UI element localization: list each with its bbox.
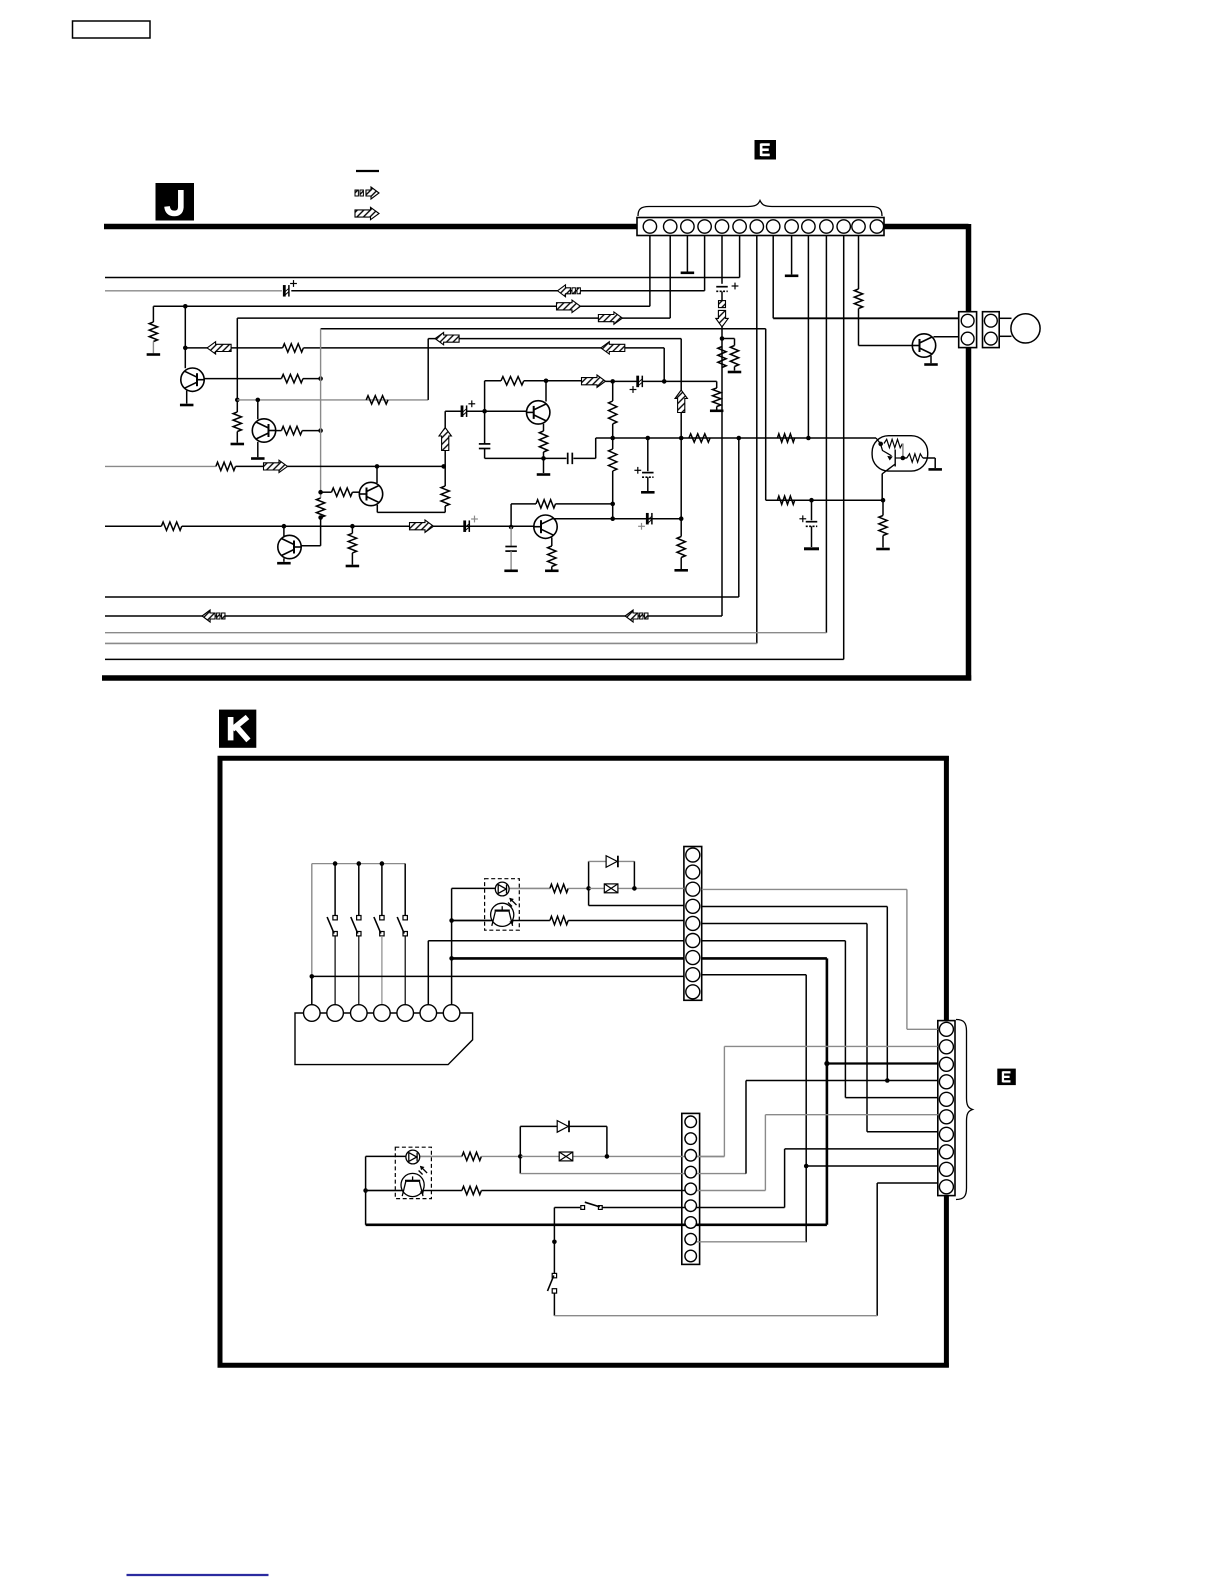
wire c1 pin4 chain h — [702, 906, 888, 908]
wire from CN-J pin7 long drop — [756, 236, 758, 644]
switch SW6 (horizontal) — [581, 1202, 602, 1209]
ground below R27 — [876, 548, 890, 551]
power transistor Q9 (oval package) — [872, 436, 928, 474]
terminator bar below R3 — [728, 371, 742, 374]
border: section K bottom — [218, 1363, 949, 1368]
wire x428 to c1 pin6 — [428, 940, 684, 942]
wire vert x877 — [876, 1183, 878, 1316]
resistor R18 on net H — [777, 434, 794, 442]
bar below C10 — [504, 569, 517, 572]
transistor Q4 — [359, 482, 382, 505]
ground below R15 — [710, 409, 724, 412]
junction net H / C7 chain — [646, 436, 651, 441]
signal arrow on net J2 — [582, 375, 606, 387]
resistor R22 on net y526 — [161, 522, 181, 530]
switch SW3 — [351, 916, 361, 936]
wire diode loop left vertical — [588, 861, 590, 905]
ground at Q1 emitter — [180, 404, 194, 407]
wire from CN-J pin9 stub — [791, 236, 793, 275]
ground below C11 — [804, 547, 819, 550]
wire net D corner drop — [236, 318, 238, 400]
resistor RK3 — [462, 1152, 482, 1160]
wire above R7 — [236, 400, 238, 412]
brace right of connector CN-K2 — [956, 1020, 973, 1200]
wire Q4 collector vertical — [376, 466, 378, 483]
wire net y458 — [485, 457, 567, 459]
wire diode loop right vertical — [633, 861, 635, 888]
capacitor C2 (pin5 chain) — [716, 287, 728, 292]
junction net J2 / Q6 collector — [544, 379, 549, 384]
wire gray net E3 (y400) — [237, 399, 428, 401]
legend: hatched arrow symbol — [355, 207, 379, 219]
capacitor C8 (series on y519) — [647, 513, 652, 525]
wire Q7 emitter upper — [551, 538, 553, 547]
connector CN3 (2 pin) body — [983, 312, 1000, 348]
diode D1 — [606, 856, 618, 868]
wire net B (y291) segment right — [291, 290, 704, 292]
ground at oval — [928, 468, 942, 471]
junction vert C / net y519 — [610, 516, 615, 521]
resistor R17 on net H — [689, 434, 710, 442]
ground below R16 — [537, 473, 551, 476]
connector CN-K2 (10 pin) body — [938, 1021, 955, 1196]
wire net y512 — [377, 511, 445, 513]
PCB pad circle 4 — [374, 1005, 391, 1022]
wire oval emitter drop lower — [881, 499, 884, 501]
suppressor XD2 (crossed box) — [559, 1152, 573, 1161]
junction oval emitter node — [901, 456, 906, 461]
wire bottom bus 1 (y597) — [105, 596, 739, 598]
wire net C corner drop — [152, 306, 154, 322]
wire c3 pin4 right (gray) — [691, 1173, 746, 1175]
signal tag arrow on bus2 right — [625, 610, 648, 622]
transistor Q5 — [278, 535, 301, 558]
wire column x451 upper — [451, 888, 453, 1004]
wire SW4 column upper — [381, 864, 383, 916]
junction x554 / c3 pin8 wire — [552, 1240, 557, 1245]
wire vert 511 upper — [510, 504, 512, 527]
junction net H / vert B — [679, 436, 684, 441]
wire Q2 emitter — [257, 442, 259, 457]
wire above R23 — [351, 526, 353, 533]
transistor Q6 — [527, 401, 550, 424]
wire vert C upper — [612, 381, 614, 401]
wire bottom bus 3 (y633) gray — [105, 632, 826, 634]
polarity + of C7 — [634, 467, 641, 474]
wire pin13 chain to Q8 base — [859, 345, 913, 347]
junction net C / Q1 base chain — [183, 304, 188, 309]
PCB pad circle 5 — [397, 1005, 414, 1022]
polarity + of C4 — [630, 386, 637, 393]
switch SW4 — [374, 916, 384, 936]
PCB outline polygon — [295, 1013, 473, 1065]
wire SW1 column lower — [311, 976, 313, 1004]
wire net y526 left — [105, 525, 161, 527]
junction gray bus / Q4 base wire — [318, 490, 323, 495]
junction x451 / motor wire — [449, 918, 454, 923]
wire net y458 right — [573, 457, 595, 459]
signal arrow on net D — [598, 312, 622, 324]
ground below R5 — [147, 353, 161, 356]
wire above R13 — [444, 466, 446, 486]
wire vert A x664 — [663, 348, 665, 382]
wire from CN-J pin12 long drop — [843, 236, 845, 660]
legend: tagged arrow symbol — [355, 187, 379, 199]
wire SW1 column upper (gray) — [311, 864, 313, 977]
resistor R13 — [441, 486, 449, 506]
polarity + of C9 — [471, 516, 478, 523]
wire Q5 collector up — [283, 526, 285, 536]
junction net y500 / C11 — [809, 498, 814, 503]
wire loop-bottom to c1 pin4 — [589, 905, 684, 907]
wire to c2 pin6 (gray) — [765, 1114, 937, 1116]
ground below R23 — [346, 565, 360, 568]
wire vert B lower — [680, 558, 682, 570]
wire corner y458 up to net H — [595, 438, 597, 458]
junction net y526 / R23 — [350, 524, 355, 529]
wire thick to c2 pin3 — [827, 1062, 938, 1064]
wire corner to C3 — [445, 410, 462, 412]
wire R6 to gray bus — [303, 378, 321, 380]
border: section J thick bottom line — [102, 675, 971, 681]
wire CN3 pin1 to plug — [999, 317, 1011, 319]
wire RK4 to c3 pin5 — [481, 1190, 690, 1192]
wire bottom gray — [554, 1315, 877, 1317]
wire diode loop top (gray) — [589, 860, 635, 862]
wire c1 pin5 chain to c2 pin7 — [867, 1131, 938, 1133]
wire net B (y291) segment left — [105, 290, 282, 292]
wire x445 above arrow — [444, 451, 446, 467]
wire column x428 upper — [427, 941, 429, 1005]
connector CN2 (2 pin) pins — [961, 314, 974, 345]
junction R9 / gray bus — [318, 428, 323, 433]
wire vert x765.7 — [765, 329, 767, 500]
wire oval ground stub — [934, 458, 936, 468]
junction diode loop left — [586, 886, 591, 891]
junction net I / Q4 collector — [375, 464, 380, 469]
junction gray net / vert 237 — [235, 398, 240, 403]
wire net C (y306) — [153, 305, 650, 307]
wire net H into oval — [876, 438, 881, 444]
resistor R16 at Q6 emitter — [539, 431, 547, 452]
wire RK3 to loop (gray) — [481, 1155, 520, 1157]
wire net y504 right — [556, 503, 613, 505]
border: section K right upper — [944, 756, 949, 1021]
wire motor2 right pre — [366, 1190, 462, 1192]
wire below R16 — [543, 452, 545, 473]
wire below R7 — [236, 432, 238, 443]
wire Q6 collector — [545, 381, 547, 402]
ground below R7 — [231, 443, 245, 446]
resistor R23 — [348, 533, 356, 553]
junction oval base — [878, 442, 883, 447]
wire net J2 mid2 — [606, 380, 638, 382]
wire net D (y318) — [237, 317, 670, 319]
wire C3 to Q6 base — [467, 410, 527, 412]
wire c1 pin4 chain v — [886, 907, 888, 1081]
wire below C10 — [510, 551, 512, 569]
wire from CN-J pin13 stub — [858, 236, 860, 290]
wire below R27 — [882, 536, 884, 548]
wire c1 pin3 chain h (gray) — [702, 888, 907, 890]
diode D2 — [557, 1121, 569, 1133]
wire net J2 (y381) start — [485, 380, 501, 382]
footer rule (blue) — [127, 1574, 269, 1576]
wire to Q5 base — [301, 545, 321, 547]
wire SW2 column lower — [334, 936, 336, 1005]
wire Q8 emitter — [930, 356, 932, 363]
resistor RK1 — [550, 884, 568, 892]
junction loop2 left — [518, 1154, 523, 1159]
polarity + of C2 — [732, 283, 739, 290]
connector CN-K1 (9 pin) pins — [686, 848, 700, 999]
wire branch to R3 — [722, 338, 735, 340]
wire c3 pin8 right (gray) — [691, 1241, 807, 1243]
junction net E3 / Q2 base — [255, 398, 260, 403]
connector CN-J (14 pin) — [637, 218, 884, 236]
resistor R27 below oval — [879, 516, 887, 536]
wire c1 pin3 chain v (gray) — [906, 889, 908, 1029]
wire below R13 — [444, 506, 446, 512]
resistor R3 (branch) — [730, 346, 738, 367]
wire net G (y348) right part — [303, 347, 664, 349]
connector CN3 (2 pin) pins — [984, 314, 997, 345]
polarity + of C1 — [290, 280, 297, 287]
junction net I end at vert 443.7 — [441, 464, 446, 469]
wire vert B upper — [680, 339, 682, 390]
section label K — [219, 710, 256, 748]
wire net E2 (y329) — [321, 328, 766, 330]
ground below R21 — [674, 569, 688, 572]
resistor R12 to Q4 base — [332, 488, 353, 496]
border: section K top — [218, 756, 949, 761]
wire vert C lower — [612, 471, 614, 519]
junction diode loop right — [632, 886, 637, 891]
wire net y526 mid — [182, 525, 534, 527]
wire loop2 bottom to c3 pin4 (gray) — [520, 1173, 690, 1175]
wire vert x765 (gray) — [764, 1115, 766, 1191]
wire LED1 right (gray) — [495, 887, 550, 889]
wire pin8 to connector CN2 pin1 — [773, 317, 959, 319]
ground below C7 — [641, 491, 655, 494]
wire to c2 pin2 (gray) — [724, 1045, 937, 1047]
junction c1p8 chain / c2 pin9 wire — [804, 1164, 809, 1169]
junction net G at Q1 chain — [183, 346, 188, 351]
transistor Q2 — [252, 419, 275, 442]
wire thick to c1 pin7 — [452, 957, 684, 960]
junction R6 / gray bus — [318, 376, 323, 381]
junction thick chain / c2 pin3 wire — [824, 1061, 829, 1066]
junction below R10 — [318, 515, 323, 520]
capacitor C6 (series on y458) — [568, 453, 573, 465]
wire SW5 column upper — [404, 864, 406, 916]
net label E (right) — [997, 1069, 1016, 1086]
wire net I (y466) left gray — [105, 465, 216, 467]
capacitor C10 (gray) — [505, 547, 516, 552]
wire vert x784 — [784, 1149, 786, 1208]
connector CN-K3 (9 pin) pins — [685, 1116, 697, 1262]
signal arrow up on vert B — [675, 390, 687, 413]
wire from CN-J pin1 down to net C — [649, 236, 651, 307]
junction vert B / net y519 — [679, 516, 684, 521]
border: section J thick right line — [966, 224, 972, 681]
wire vert x746 — [745, 1081, 747, 1174]
wire LED2 right (gray) — [406, 1155, 462, 1157]
wire c3 pin3 right (gray) — [691, 1156, 725, 1158]
junction pin5 chain split — [720, 336, 725, 341]
wire loop2 top — [520, 1125, 607, 1127]
wire x311 to c1 pin8 — [312, 975, 684, 977]
connector CN2 (2 pin) body — [959, 312, 977, 348]
polarity + of C8 — [638, 523, 645, 530]
wire from CN-J pin4 down to net B — [704, 236, 706, 291]
resistor R19 on vert C — [609, 401, 617, 424]
signal arrow on net G left — [207, 342, 231, 354]
border: section J thick top line — [104, 224, 969, 230]
wire net A (y278) — [105, 277, 740, 279]
junction switch bus / SW2 — [333, 861, 338, 866]
wire vert x484.6 upper — [484, 381, 486, 444]
resistor R26 on net y500 — [777, 496, 794, 504]
wire below R5 — [152, 342, 154, 354]
ground at CN-J pin9 — [785, 274, 799, 277]
resistor R2 (pin5 chain) — [718, 347, 726, 368]
wire vert x554 lower — [553, 1293, 555, 1316]
wire net I (y466) right — [236, 465, 444, 467]
wire net lamp1 (gray) — [589, 887, 684, 889]
resistor R5 — [149, 322, 157, 342]
wire C11 stub below — [811, 526, 813, 547]
wire SW2 column upper — [334, 864, 336, 916]
signal arrow down on pin5 chain — [716, 310, 728, 327]
ground at Q5 emitter — [277, 562, 291, 565]
switch SW7 (vertical) — [548, 1273, 557, 1293]
signal arrow on net F2 — [435, 332, 459, 344]
junction net y500 / oval drop — [881, 498, 886, 503]
capacitor C5 (to net y458) — [479, 444, 491, 449]
transistor Q7 — [534, 515, 557, 538]
wire c1 pin6 chain to c2 pin5 — [845, 1097, 937, 1099]
motor M1 symbol — [491, 903, 514, 926]
LED2 photo-diode — [406, 1150, 427, 1174]
junction switch bus / SW3 — [357, 861, 362, 866]
wire from CN-J pin10 down to net H — [807, 236, 809, 438]
capacitor C9 (series on y526) — [465, 520, 470, 532]
dashed enclosure (upper opto block) — [485, 879, 520, 931]
wire Q1 base vertical — [184, 306, 186, 368]
wire SW5 column lower — [404, 936, 406, 1005]
connector CN-K3 (9 pin) body — [682, 1113, 700, 1264]
wire oval R to ground — [923, 457, 935, 459]
wire motor1 right pre — [452, 920, 550, 922]
wire from CN-J pin2 down to net D — [669, 236, 671, 319]
wire LED2 left — [366, 1155, 406, 1157]
wire vert B mid — [680, 413, 682, 537]
junction net y526 / Q5 collector — [282, 524, 287, 529]
junction c1p4 / c2p4 wire — [885, 1078, 890, 1083]
wire vert x554 upper — [553, 1208, 555, 1274]
wire Q1 emitter — [186, 391, 188, 404]
switch SW5 — [397, 916, 407, 936]
resistor R24 on net y504 — [536, 500, 556, 508]
wire c1 pin8 chain v — [805, 975, 807, 1242]
signal arrow on net I — [264, 460, 288, 472]
wire stub below R3 — [734, 367, 736, 371]
wire vert x365 — [365, 1156, 367, 1224]
junction SW1 column / c1pin8 wire — [310, 974, 315, 979]
motor M2 symbol — [401, 1173, 424, 1196]
connector CN-K2 (10 pin) pins — [939, 1022, 953, 1194]
wire RK2 to c1 pin5 — [568, 920, 684, 922]
signal arrow on net C — [557, 300, 581, 312]
wire sw-h left — [554, 1207, 580, 1209]
polarity + of C11 — [799, 515, 806, 522]
wire SW3 column upper — [358, 864, 360, 916]
junction loop2 right — [605, 1154, 610, 1159]
wire net J2 right — [642, 380, 716, 382]
wire c1 pin8 chain h — [702, 974, 807, 976]
switch SW2 — [327, 916, 337, 936]
junction Q6 base / vert 484.6 — [482, 409, 487, 414]
wire R12 to Q4 — [352, 491, 359, 493]
suppressor XD1 (crossed box) — [604, 884, 618, 893]
PCB pad circle 3 — [351, 1005, 368, 1022]
wire C5 to net y458 — [484, 449, 486, 459]
wire c1 pin7 chain h thick — [702, 957, 827, 960]
junction net H / pin10 — [806, 436, 811, 441]
PCB pad circle 2 — [327, 1005, 344, 1022]
capacitor C4 (series on net J2) — [638, 376, 643, 388]
net label E (top) — [755, 140, 777, 160]
resistor R11 on net I — [216, 462, 236, 470]
wire Q4 emitter down — [376, 505, 378, 513]
resistor R1 on net G — [283, 344, 304, 352]
signal arrow on net G right — [601, 342, 625, 354]
polarity + of C3 — [468, 400, 475, 407]
resistor R25 at Q7 emitter — [548, 546, 556, 567]
resistor RK2 — [550, 916, 568, 924]
wire bottom bus 5 (y659) — [105, 658, 844, 660]
wire above R27 — [882, 500, 884, 515]
wire motor1 left — [452, 920, 491, 922]
wire RK1 to diode node (gray) — [568, 887, 588, 889]
wire SW4 column lower — [381, 936, 383, 1005]
wire gray bus below R10 — [320, 518, 322, 546]
resistor R20 on vert C — [609, 449, 617, 471]
capacitor C1 (series on net B) — [284, 285, 289, 297]
capacitor C11 (polarized) — [806, 522, 818, 527]
resistor RK4 — [462, 1186, 482, 1194]
wire SW3 column lower — [358, 936, 360, 1005]
wire x445 corner to cap C3 — [444, 411, 446, 427]
wire c3 pin5 right (gray) — [691, 1190, 766, 1192]
wire c1 pin6 chain v — [844, 941, 846, 1098]
wire vert C mid — [612, 424, 614, 449]
wire net H (y438) — [596, 437, 876, 439]
wire Q8 collector — [934, 336, 959, 338]
wire net E3 corner up — [427, 339, 429, 400]
wire Q2 base vertical — [257, 400, 259, 419]
wire oval emitter drop — [881, 474, 883, 500]
wire c1 pin5 chain h — [702, 923, 867, 925]
PCB pad circle 1 — [304, 1005, 321, 1022]
transistor Q1 — [181, 368, 204, 391]
page frame box top-left — [73, 21, 151, 38]
wire stub above R3 — [734, 339, 736, 346]
wire bottom bus 4 (y643) gray — [105, 642, 757, 644]
signal arrow up x445 — [439, 428, 451, 451]
wire C11 stub above — [811, 500, 813, 520]
